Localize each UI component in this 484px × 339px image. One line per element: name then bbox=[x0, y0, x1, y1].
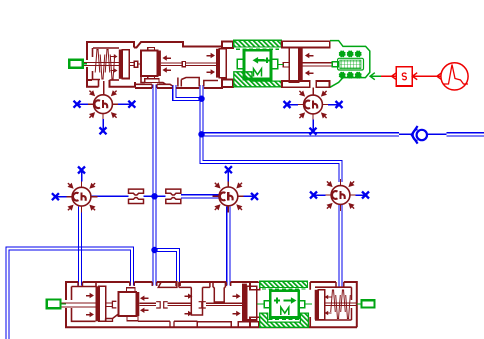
Ch1 stem to valve bbox=[103, 81, 105, 95]
top valve V1 end blocks at hatch bbox=[222, 42, 233, 49]
V1 right rod bbox=[283, 62, 289, 67]
top valve V1 bottom profile bbox=[141, 76, 145, 83]
V2 left chamber inner walls bbox=[72, 287, 96, 301]
check valve bbox=[412, 126, 418, 144]
chamber Ch3 bbox=[214, 182, 242, 210]
M2 right link bbox=[305, 303, 312, 305]
wire orifice R2 to Ch3 bbox=[181, 195, 219, 198]
top valve V1 right-flow arrows bbox=[207, 53, 216, 58]
junction node A bbox=[198, 96, 204, 102]
V2 blocks before M2 bbox=[250, 282, 260, 289]
chamber Ch1 bbox=[89, 90, 117, 118]
Ch1 right port bbox=[112, 103, 119, 105]
V2 tall divider bar bbox=[242, 284, 247, 322]
solenoid S1 coil row bottom bbox=[340, 73, 345, 78]
wire junction A down to junction B bbox=[200, 100, 203, 133]
V1 right bottom bars bbox=[282, 81, 310, 87]
M1 top hatched guide bbox=[234, 40, 281, 47]
wire to right edge bbox=[447, 133, 484, 136]
signal wire source to s-block bbox=[412, 75, 440, 77]
M2 top hatched guide bbox=[260, 281, 308, 287]
V1 right-section arrows bbox=[305, 53, 314, 58]
Ch4 left port bbox=[297, 104, 304, 106]
solenoid S1 outline bbox=[330, 41, 370, 88]
V2 rod middle with couplings bbox=[206, 302, 242, 304]
top valve V1 rod middle bbox=[161, 62, 182, 64]
V2 right piston bbox=[315, 290, 318, 320]
transfer block s bbox=[396, 67, 412, 86]
Ch1 left port bbox=[87, 103, 94, 105]
solenoid S1 signal arrowhead bbox=[370, 73, 375, 80]
M2 left pin bbox=[264, 301, 270, 308]
Ch1 bottom port bbox=[102, 114, 104, 121]
chamber Ch5 bbox=[327, 181, 355, 209]
orifice R2 bbox=[166, 189, 181, 195]
M2 bottom hatched guide bbox=[260, 313, 309, 327]
V1 right piston bbox=[289, 48, 298, 82]
junction node at orifice row bbox=[151, 193, 157, 199]
Ch5 bottom stub bbox=[340, 204, 342, 211]
V2 T-land 1 bbox=[179, 282, 210, 288]
solenoid S1 coil row top bbox=[340, 51, 345, 56]
V2 spring housing outline bbox=[310, 282, 357, 327]
top valve V1 spring chamber arrows bbox=[111, 54, 118, 59]
wire left L-line from bottom edge to bottom valve port bbox=[6, 247, 134, 339]
Ch4 stem to valve bbox=[312, 88, 314, 96]
V2 rod clip bbox=[106, 302, 113, 304]
V2 left chamber arrows bbox=[86, 293, 94, 298]
wire ch5 stem bbox=[340, 180, 342, 186]
wire check valve stub left bbox=[399, 133, 412, 135]
chamber Ch2 bbox=[68, 183, 96, 211]
V2 outer bottom and left wall bbox=[66, 308, 357, 327]
solenoid S1 stem bbox=[330, 62, 333, 64]
junction node lower branch bbox=[151, 247, 157, 253]
V2 right-flow arrows bbox=[184, 294, 192, 299]
top valve V1 left piston bbox=[119, 50, 123, 79]
junction node B bbox=[198, 131, 204, 137]
signal source waveform bbox=[444, 65, 469, 85]
signal wire solenoid to s-block bbox=[381, 75, 396, 77]
wire check valve stub right bbox=[428, 133, 447, 135]
wire Ch3 bottom to bottom valve bbox=[227, 207, 230, 286]
top valve V1 spring bbox=[95, 50, 100, 73]
top valve V1 top profile bbox=[134, 42, 222, 48]
M2 dashed seals bbox=[262, 288, 306, 290]
V2 under-block profile bbox=[106, 314, 119, 319]
Ch4 right port bbox=[322, 104, 329, 106]
M1 plus sign bbox=[264, 59, 270, 61]
Ch5 right port bbox=[350, 194, 357, 196]
mass block M1 bbox=[244, 50, 271, 79]
top valve V1 mid piston bbox=[216, 49, 219, 78]
M1 right pin bbox=[271, 59, 278, 68]
solenoid S1 armature grid bbox=[340, 60, 361, 68]
Ch3 right port bbox=[238, 195, 245, 197]
top valve V1 rod left bbox=[83, 62, 119, 64]
wire junction B to Ch5 top bbox=[200, 136, 342, 182]
wire main line junction B to check valve bbox=[203, 133, 399, 136]
Ch2 right stub bbox=[91, 196, 98, 198]
wire long vertical from top valve through junctions to bottom valve bbox=[153, 85, 156, 286]
V2 spring bbox=[331, 290, 336, 312]
top valve V1 spool block bbox=[141, 51, 158, 77]
port P2 (bottom valve left) bbox=[47, 300, 61, 309]
wire Ch5 bottom to bottom valve bbox=[339, 205, 342, 287]
top valve V1 left housing outline bbox=[87, 42, 134, 60]
M1 bottom hatched guide bbox=[234, 72, 282, 87]
top valve V1 left-flow arrows bbox=[162, 55, 171, 60]
M1 left pin bbox=[237, 59, 244, 68]
M2 right pin bbox=[299, 301, 305, 308]
arrowhead into solenoid line bbox=[392, 73, 397, 80]
M1 letter M bbox=[254, 69, 262, 77]
arrowhead at source bbox=[437, 73, 442, 80]
wire junction to orifice R2 bbox=[156, 195, 166, 197]
V2 flag tab bbox=[158, 282, 177, 288]
V2 rod from left port bbox=[62, 302, 96, 304]
mass block M2 bbox=[270, 291, 298, 318]
wire orifice R1 to junction bbox=[144, 195, 154, 197]
V2 left-flow arrows bbox=[140, 296, 149, 301]
V2 spool block bbox=[118, 292, 136, 316]
Ch5 left port bbox=[325, 194, 332, 196]
arrowhead into s-block bbox=[412, 73, 417, 80]
chamber Ch4 bbox=[299, 91, 327, 119]
wire Ch2 to orifice R1 bbox=[91, 195, 129, 197]
wire top valve centre tab down bbox=[200, 85, 203, 96]
V1 right top bar bbox=[282, 41, 330, 47]
M2 plus sign bbox=[274, 300, 280, 302]
M2 left link bbox=[257, 303, 264, 305]
V2 rod right bbox=[325, 302, 357, 304]
M2 direction arrow bbox=[284, 297, 297, 304]
wire top valve tab to junction A bbox=[173, 85, 199, 101]
Ch5 top stub bbox=[340, 179, 342, 186]
port P1 (top valve left) bbox=[69, 60, 82, 68]
V2 feet bbox=[197, 322, 231, 328]
wire branch to bottom valve port bbox=[156, 248, 180, 285]
Ch3 top port bbox=[227, 180, 229, 187]
M1 dashed seals bbox=[236, 48, 279, 50]
M1 direction arrow bbox=[253, 57, 265, 64]
Ch2 left port bbox=[66, 196, 73, 198]
M2 letter M bbox=[281, 307, 289, 315]
orifice R1 bbox=[129, 189, 144, 195]
V2 left piston bbox=[96, 286, 100, 321]
Ch2 top port bbox=[81, 181, 83, 188]
Ch2 bottom stub bbox=[81, 206, 83, 213]
wire Ch2 bottom to bottom valve bbox=[78, 207, 81, 286]
Ch4 bottom port bbox=[312, 114, 314, 121]
bottom valve V2 top edge with pipe gaps bbox=[66, 282, 258, 300]
Ch3 bottom stub bbox=[227, 206, 229, 213]
port P3 (bottom valve right) bbox=[362, 300, 375, 307]
solenoid S1 signal lead bbox=[370, 75, 381, 77]
V2 spring chamber arrows bbox=[325, 295, 332, 300]
signal source circle bbox=[441, 63, 468, 90]
Ch3 left stub bbox=[212, 195, 219, 197]
V2 spring housing inner walls bbox=[315, 287, 352, 320]
V1 link to M1 right pin bbox=[278, 64, 284, 66]
V2 T-land 2 bbox=[213, 282, 225, 288]
solenoid S1 armature box bbox=[338, 58, 364, 70]
